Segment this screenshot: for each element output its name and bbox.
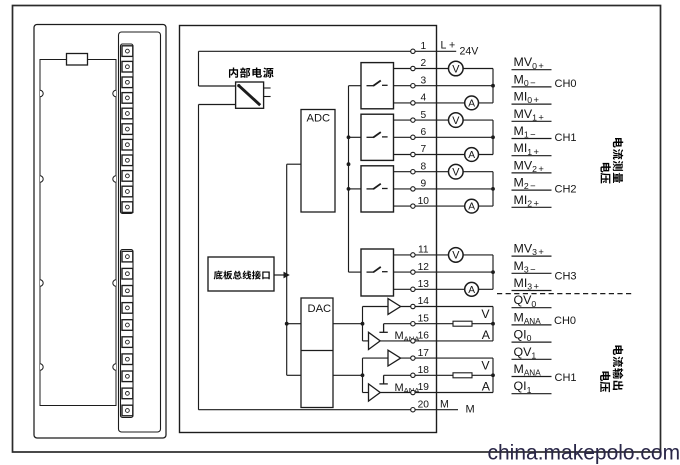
wire to V-amp CH1 [363,357,389,359]
label 电流输出 vertical [613,345,624,390]
signal label MV1+ line [512,120,552,122]
wire terminal 9 [394,188,494,190]
svg-text:16: 16 [418,331,430,342]
module terminal contact [122,124,133,135]
signal label M1− line [512,138,552,140]
wire to I-amp CH1 [363,392,369,394]
wire amp feed CH1 [362,358,364,392]
signal label QI0 line [512,341,552,343]
terminal 11 contact [411,253,415,257]
voltmeter terminal 2 [449,61,464,76]
measuring loop CH0 [492,69,494,103]
terminal 8 contact [411,170,415,174]
load resistor CH0 [453,321,472,326]
wire terminal 14 [401,306,493,308]
svg-text:L +: L + [441,39,456,51]
svg-text:CH1: CH1 [555,132,577,144]
wire terminal 8 [394,171,494,173]
terminal 17 contact [411,356,415,360]
wire bus to DAC upper [287,323,301,325]
svg-text:A: A [468,202,475,213]
module terminal contact [122,251,133,262]
module terminal contact [122,303,133,314]
svg-text:V: V [452,167,460,179]
signal label MV0+ line [512,69,552,71]
wire terminal 3 [394,85,494,87]
module terminal contact [122,202,133,213]
terminal 5 contact [411,118,415,122]
wire M vertical rail [198,105,200,410]
terminal 12 contact [411,270,415,274]
signal label MV2+ line [512,172,552,174]
label 电压 vertical output [600,371,610,392]
signal label MANA line [512,324,552,326]
svg-text:CH3: CH3 [555,271,577,283]
svg-text:china.makepolo.com: china.makepolo.com [488,442,680,465]
mounting hole left [40,280,43,286]
module terminal contact [122,155,133,166]
terminal 18 contact [411,373,415,377]
op-amp V CH0 [388,299,401,315]
junction load CH1 [491,373,495,377]
wire ADC-DAC bus vertical [286,164,288,375]
signal label QI1 line [512,393,552,395]
signal label M3− line [512,272,552,274]
svg-text:2: 2 [420,58,426,69]
wire terminal 11 [394,254,494,256]
junction node CH1 [491,135,495,139]
terminal 10 contact [411,204,415,208]
svg-text:CH0: CH0 [554,315,576,327]
svg-text:ADC: ADC [307,113,331,125]
wire to V-amp CH0 [363,306,389,308]
wire L+ into power supply [199,85,236,87]
svg-text:A: A [482,380,491,394]
mounting hole right [113,90,116,96]
wire amp feed CH0 [362,307,364,341]
label 底板总线接口 [214,271,223,280]
module terminal contact [122,354,133,365]
junction DAC CH0 [361,322,365,326]
svg-text:V: V [481,359,490,373]
power supply output tick 2 [264,96,271,98]
signal label MANA line [512,376,552,378]
mounting hole right [113,176,116,182]
ADC U2 [301,110,335,213]
ammeter terminal 13 [465,282,479,296]
mounting hole left [40,176,43,182]
wire DAC out CH0 [333,323,363,325]
svg-text:CH2: CH2 [555,184,577,196]
svg-text:13: 13 [418,279,430,290]
wire terminal 16 [380,340,493,342]
module top label plate [67,54,88,66]
wire terminal 17 [401,357,493,359]
backplane arrow [274,274,284,276]
svg-text:V: V [481,307,490,321]
svg-text:24V: 24V [460,45,480,57]
measuring loop CH3 [492,255,494,289]
svg-text:A: A [468,150,475,161]
terminal 15 contact [411,322,415,326]
switch S1 (CH0) [361,63,394,109]
terminal 2 contact [411,66,415,70]
voltmeter terminal 5 [449,113,464,128]
op-amp V CH1 [388,350,401,366]
terminal block upper [121,44,134,214]
backplane bus interface box [208,257,274,291]
measuring loop CH2 [492,172,494,206]
wire mux stub CH2 [349,188,362,190]
junction node CH3 [491,270,495,274]
terminal 13 contact [411,287,415,291]
wire M from power supply [199,104,236,106]
label 电压 vertical input [600,163,610,184]
module case outline [34,25,166,439]
svg-text:14: 14 [418,296,430,307]
power supply U1 [236,82,264,108]
voltmeter terminal 8 [449,164,464,179]
wire mux stub CH3 [349,271,362,273]
junction load CH0 [491,322,495,326]
terminal 6 contact [411,135,415,139]
signal label QV0 line [512,307,552,309]
module terminal contact [122,46,133,57]
module terminal contact [122,371,133,382]
module terminal contact [122,93,133,104]
module terminal contact [122,108,133,119]
signal label M0− line [512,86,552,88]
junction mux ADC [347,162,351,166]
module terminal contact [122,337,133,348]
signal label QV1 line [512,358,552,360]
op-amp I CH1 [369,384,381,401]
svg-text:19: 19 [418,382,430,393]
wire L+ from terminal 1 [199,50,457,52]
wire bus to DAC lower [287,374,301,376]
svg-text:3: 3 [420,75,426,86]
module terminal contact [122,388,133,399]
wire to I-amp CH0 [363,340,369,342]
svg-text:11: 11 [418,245,429,256]
label 电流测量 vertical [613,138,624,183]
signal label MI3+ line [512,290,552,292]
module terminal contact [122,405,133,416]
signal label MV3+ line [512,255,552,257]
module terminal contact [122,171,133,182]
svg-text:A: A [482,328,491,342]
wire terminal 12 [394,271,494,273]
wire terminal 13 [394,288,494,290]
svg-text:17: 17 [418,348,430,359]
ground M_ANA CH1 [383,375,385,384]
terminal 14 contact [411,304,415,308]
ammeter terminal 4 [465,96,479,110]
mounting hole left [40,90,43,96]
svg-text:V: V [452,63,460,75]
terminal 7 contact [411,152,415,156]
load loop CH1 [492,358,494,392]
svg-text:DAC: DAC [308,303,332,315]
wire terminal 5 [394,119,494,121]
mounting hole right [113,280,116,286]
ammeter terminal 7 [465,148,479,162]
wire L+ vertical [198,51,200,86]
junction node CH0 [491,84,495,88]
svg-text:6: 6 [420,127,426,138]
svg-text:20: 20 [418,399,430,410]
terminal strip housing [119,32,161,432]
signal label MI2+ line [512,206,552,208]
svg-text:CH0: CH0 [555,78,577,90]
module terminal contact [122,77,133,88]
voltmeter terminal 11 [449,248,464,263]
terminal 1 contact [411,49,415,53]
module boundary box [180,26,437,433]
svg-text:9: 9 [420,179,426,190]
wire DAC out CH1 [333,374,363,376]
DAC split line [301,350,333,352]
svg-text:A: A [468,99,475,110]
svg-text:15: 15 [418,313,430,324]
wire terminal 4 [394,102,494,104]
wire mux bus vertical [348,86,350,272]
svg-text:V: V [452,250,460,262]
junction mux CH2 [347,187,351,191]
mounting hole left [40,364,43,370]
ammeter terminal 10 [465,199,479,213]
junction mux CH1 [347,135,351,139]
terminal 9 contact [411,187,415,191]
module terminal contact [122,320,133,331]
svg-text:M: M [440,399,449,411]
measuring loop CH1 [492,120,494,154]
dashed separator [497,293,634,295]
wire terminal 7 [394,154,494,156]
junction DAC CH1 [361,373,365,377]
module terminal contact [122,139,133,150]
wire terminal 10 [394,205,494,207]
wire terminal 2 [394,68,494,70]
junction bus-DAC upper [285,322,289,326]
terminal 3 contact [411,84,415,88]
svg-text:12: 12 [418,262,430,273]
terminal block lower [121,250,134,418]
wire mux stub CH1 [349,136,362,138]
svg-text:4: 4 [420,93,426,104]
junction node CH2 [491,187,495,191]
wire terminal 15 [384,323,493,325]
module terminal contact [122,268,133,279]
terminal 16 contact [411,339,415,343]
wire mux stub CH0 [349,85,362,87]
signal label M2− line [512,189,552,191]
signal label MI0+ line [512,103,552,105]
module terminal contact [122,186,133,197]
switch S4 (CH3) [361,249,394,296]
terminal 19 contact [411,390,415,394]
wire M to terminal 20 [199,409,459,411]
module inner panel [40,60,116,406]
signal label MI1+ line [512,155,552,157]
power supply output tick 1 [264,87,271,89]
module terminal contact [122,286,133,297]
module terminal contact [122,61,133,72]
svg-text:10: 10 [418,196,430,207]
terminal 20 contact [411,408,415,412]
load resistor CH1 [453,373,472,378]
mounting hole right [113,364,116,370]
svg-text:M: M [466,403,475,415]
load loop CH0 [492,307,494,341]
svg-text:8: 8 [420,161,426,172]
svg-text:A: A [468,285,475,296]
op-amp I CH0 [369,332,381,349]
switch S2 (CH1) [361,114,394,160]
switch S3 (CH2) [361,166,394,212]
svg-text:CH1: CH1 [555,372,577,384]
svg-text:V: V [452,115,460,127]
svg-text:1: 1 [420,41,426,52]
svg-text:18: 18 [418,365,430,376]
power supply diagonal [239,85,261,105]
svg-text:5: 5 [420,110,426,121]
wire bus to ADC [287,163,301,165]
DAC U3 [301,298,333,408]
label 内部电源 [229,67,238,77]
wire terminal 18 [384,374,493,376]
wire terminal 19 [380,392,493,394]
wire terminal 6 [394,136,494,138]
terminal 4 contact [411,101,415,105]
ground M_ANA CH0 [383,324,385,333]
svg-text:7: 7 [420,144,426,155]
